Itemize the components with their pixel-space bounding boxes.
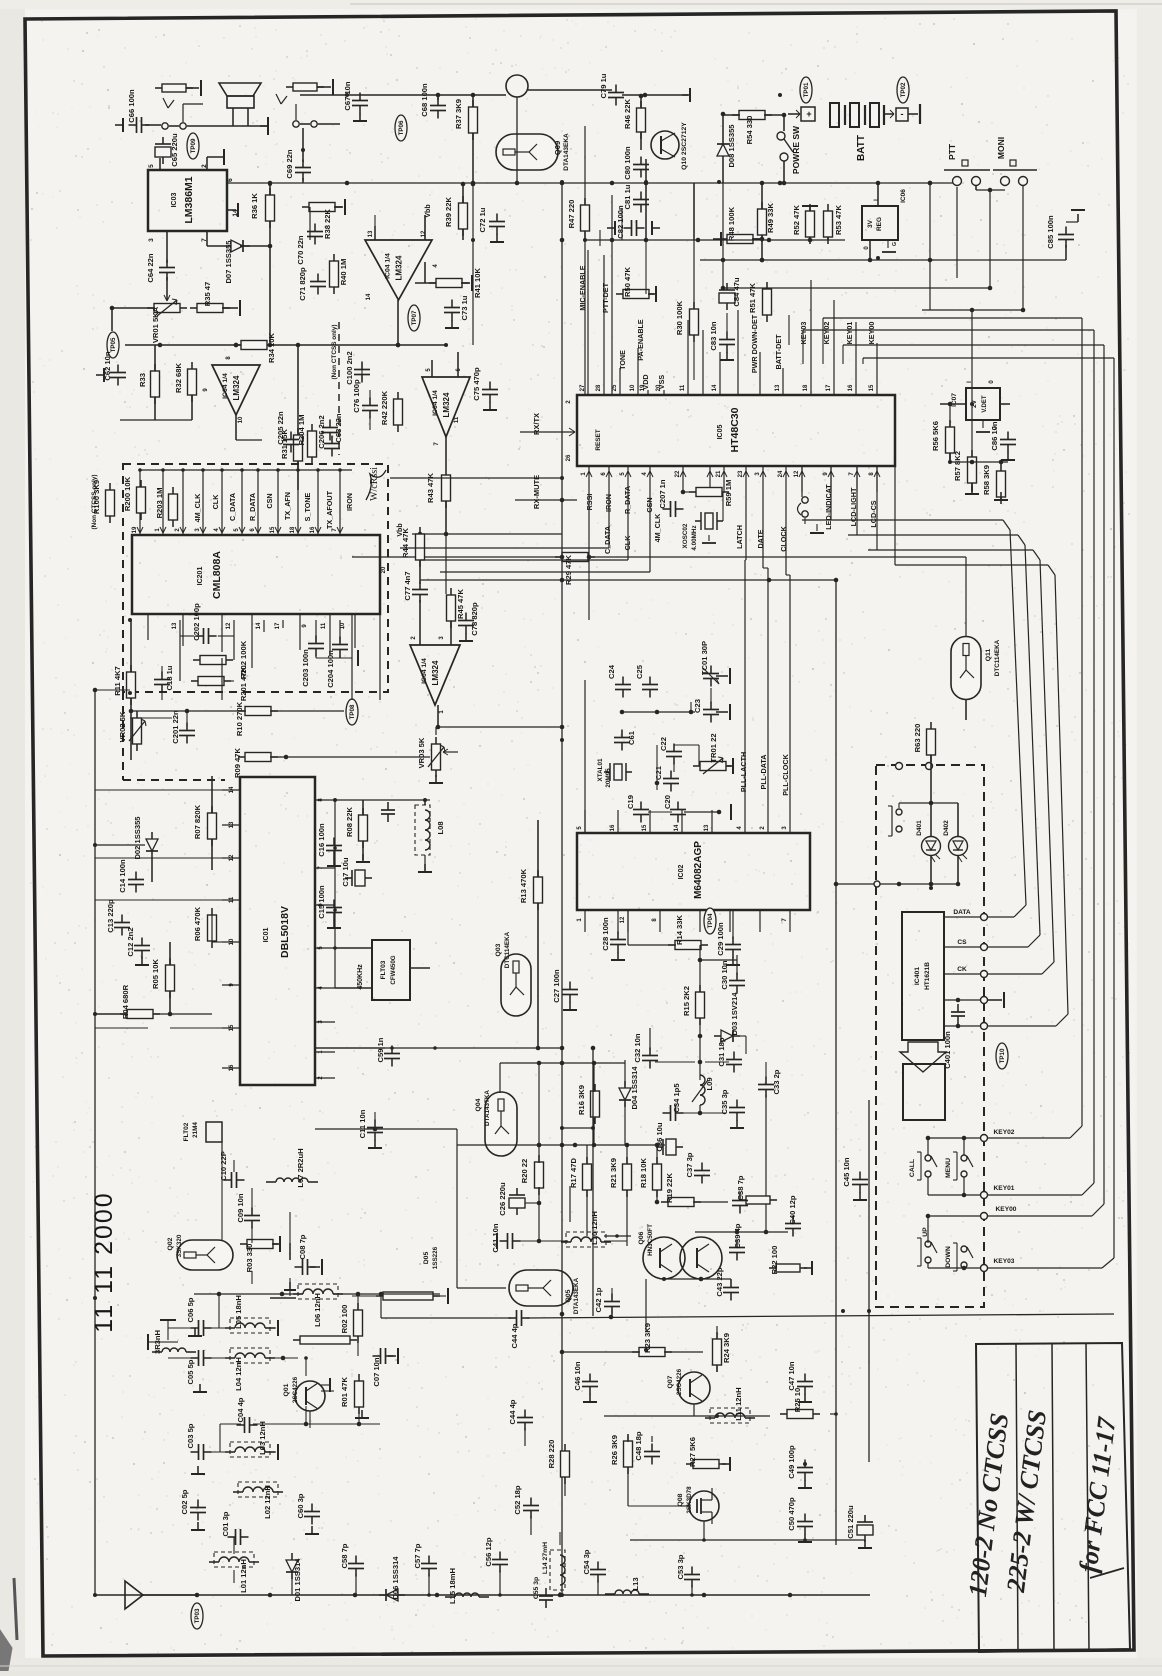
svg-text:C45 10n: C45 10n: [842, 1157, 851, 1186]
svg-text:12: 12: [421, 230, 427, 237]
svg-text:KEY03: KEY03: [994, 1258, 1015, 1265]
svg-text:C16 100n: C16 100n: [317, 823, 326, 857]
svg-text:14: 14: [256, 622, 262, 629]
svg-text:C60 3p: C60 3p: [296, 1493, 305, 1518]
svg-text:450KHz: 450KHz: [357, 964, 364, 990]
svg-text:Vbb: Vbb: [425, 204, 432, 217]
svg-text:C50 470p: C50 470p: [787, 1497, 796, 1531]
svg-text:C205 22n: C205 22n: [276, 411, 285, 445]
svg-text:C44 4p: C44 4p: [510, 1323, 519, 1348]
svg-text:R200 10K: R200 10K: [123, 476, 132, 511]
svg-text:R35 47: R35 47: [203, 282, 212, 307]
svg-text:C_DATA: C_DATA: [603, 526, 612, 554]
svg-text:C18 1u: C18 1u: [165, 665, 174, 690]
svg-text:R33: R33: [138, 373, 147, 387]
svg-text:10: 10: [340, 622, 346, 629]
svg-text:TX_AFN: TX_AFN: [283, 492, 292, 520]
svg-text:DBL5018V: DBL5018V: [279, 906, 291, 958]
svg-text:TP05: TP05: [110, 337, 117, 352]
svg-text:TP03: TP03: [194, 1608, 201, 1623]
svg-text:18: 18: [803, 384, 809, 391]
svg-text:IC02: IC02: [678, 865, 685, 880]
svg-text:L01 12nH: L01 12nH: [239, 1559, 248, 1593]
svg-text:R53 47K: R53 47K: [834, 205, 843, 235]
svg-text:C44 4p: C44 4p: [508, 1399, 517, 1424]
svg-text:BATT: BATT: [856, 135, 867, 161]
svg-text:G: G: [892, 242, 898, 246]
svg-text:MIC-ENABLE: MIC-ENABLE: [578, 265, 587, 310]
svg-text:D02 1SS355: D02 1SS355: [133, 816, 142, 860]
svg-text:C206 2n2: C206 2n2: [317, 415, 326, 448]
svg-text:Q03: Q03: [495, 943, 502, 956]
svg-text:C64 22n: C64 22n: [146, 253, 155, 282]
svg-text:R39 22K: R39 22K: [444, 197, 453, 227]
svg-text:HT48C30: HT48C30: [729, 407, 741, 452]
svg-text:10: 10: [630, 384, 636, 391]
svg-text:15: 15: [642, 824, 648, 831]
svg-text:R50 47K: R50 47K: [623, 267, 632, 297]
svg-text:Q04: Q04: [475, 1098, 482, 1111]
svg-text:R01 47K: R01 47K: [340, 1377, 349, 1407]
svg-text:CS: CS: [957, 939, 967, 946]
svg-text:DATE: DATE: [756, 529, 765, 548]
svg-text:C26 220u: C26 220u: [498, 1182, 507, 1216]
svg-text:C78 820p: C78 820p: [470, 602, 479, 636]
svg-text:C20: C20: [663, 795, 672, 809]
svg-text:LM386M1: LM386M1: [183, 176, 195, 223]
svg-text:10: 10: [238, 416, 244, 423]
svg-text:R20 22: R20 22: [520, 1159, 529, 1184]
svg-text:11: 11: [454, 416, 460, 423]
svg-text:12: 12: [226, 622, 232, 629]
svg-text:R59 1M: R59 1M: [724, 480, 733, 507]
svg-text:C04 4p: C04 4p: [236, 1397, 245, 1422]
svg-text:C54 3p: C54 3p: [582, 1549, 591, 1574]
svg-text:C65 220u: C65 220u: [170, 133, 179, 167]
svg-text:R46 22K: R46 22K: [623, 99, 632, 129]
svg-text:21M4: 21M4: [192, 1122, 199, 1138]
svg-text:D04 1SS314: D04 1SS314: [630, 1066, 639, 1110]
svg-text:TP02: TP02: [900, 82, 907, 97]
svg-text:TP10: TP10: [999, 1048, 1006, 1063]
svg-text:C72 1u: C72 1u: [478, 207, 487, 232]
svg-text:R48 100K: R48 100K: [727, 206, 736, 241]
svg-text:14: 14: [712, 384, 718, 391]
svg-text:C56 12p: C56 12p: [484, 1537, 493, 1566]
svg-text:R36 1K: R36 1K: [250, 193, 259, 219]
svg-text:C39 4p: C39 4p: [733, 1223, 742, 1248]
svg-text:C42 1p: C42 1p: [594, 1287, 603, 1312]
svg-text:6: 6: [227, 178, 234, 182]
svg-text:C46 10n: C46 10n: [573, 1361, 582, 1390]
svg-text:C14 100n: C14 100n: [118, 859, 127, 893]
svg-text:R22 100: R22 100: [770, 1246, 779, 1275]
svg-text:C15 100n: C15 100n: [317, 885, 326, 919]
svg-text:R09 47K: R09 47K: [233, 748, 242, 778]
svg-text:CALL: CALL: [909, 1159, 916, 1177]
svg-text:TR01 22: TR01 22: [709, 733, 718, 762]
svg-text:D06 1SS314: D06 1SS314: [391, 1556, 400, 1600]
svg-text:L15 18mH: L15 18mH: [448, 1568, 457, 1604]
svg-text:L10 12nH: L10 12nH: [590, 1211, 599, 1245]
svg-text:C57 7p: C57 7p: [413, 1543, 422, 1568]
svg-text:C03 5p: C03 5p: [186, 1423, 195, 1448]
svg-text:TP07: TP07: [411, 310, 418, 325]
svg-text:REG: REG: [876, 217, 883, 231]
svg-text:R_DATA: R_DATA: [248, 493, 257, 521]
svg-text:FLT02: FLT02: [183, 1122, 190, 1141]
svg-text:2SK3D78: 2SK3D78: [686, 1486, 693, 1514]
svg-text:C35 3p: C35 3p: [720, 1089, 729, 1114]
svg-text:C69 22n: C69 22n: [285, 149, 294, 178]
svg-text:+: +: [806, 109, 811, 119]
svg-text:R28 220: R28 220: [547, 1440, 556, 1469]
svg-text:4.00MHz: 4.00MHz: [691, 525, 698, 550]
svg-text:C58 7p: C58 7p: [340, 1543, 349, 1568]
svg-text:R40 1M: R40 1M: [339, 259, 348, 286]
svg-text:CLK: CLK: [211, 494, 220, 510]
svg-text:L13: L13: [631, 1577, 640, 1590]
svg-text:C07 10n: C07 10n: [372, 1357, 381, 1386]
svg-text:R30 100K: R30 100K: [675, 300, 684, 335]
svg-text:Q11: Q11: [985, 649, 992, 662]
svg-text:PLL-LACTH: PLL-LACTH: [739, 752, 748, 792]
svg-text:XTAL01: XTAL01: [597, 758, 604, 781]
svg-text:11 11 2000: 11 11 2000: [90, 1191, 118, 1332]
svg-text:16: 16: [610, 824, 616, 831]
svg-text:L09: L09: [705, 1077, 714, 1090]
svg-text:CFW450G: CFW450G: [390, 955, 397, 984]
svg-text:R15 2K2: R15 2K2: [682, 986, 691, 1016]
svg-text:5: 5: [148, 164, 155, 168]
svg-text:Vbb: Vbb: [397, 523, 404, 536]
svg-text:4M_CLK: 4M_CLK: [653, 513, 662, 543]
svg-text:R56 5K6: R56 5K6: [931, 421, 940, 451]
svg-text:TP08: TP08: [349, 704, 356, 719]
svg-text:D08 1SS355: D08 1SS355: [727, 124, 736, 168]
svg-text:CLOCK: CLOCK: [779, 525, 788, 551]
svg-text:C38 7p: C38 7p: [736, 1175, 745, 1200]
svg-text:VR02 5K: VR02 5K: [118, 711, 127, 742]
svg-text:MENU: MENU: [945, 1158, 952, 1178]
svg-text:20M95: 20M95: [605, 768, 612, 788]
svg-text:28: 28: [596, 384, 602, 391]
svg-text:LATCH: LATCH: [735, 525, 744, 549]
svg-text:C52 18p: C52 18p: [513, 1485, 522, 1514]
svg-text:C23: C23: [693, 699, 702, 713]
svg-text:C201 22n: C201 22n: [171, 710, 180, 744]
svg-text:Q01: Q01: [283, 1383, 290, 1396]
svg-text:16: 16: [848, 384, 854, 391]
svg-text:R34 10K: R34 10K: [267, 333, 276, 363]
svg-text:C73 1u: C73 1u: [460, 295, 469, 320]
svg-text:C63 22n: C63 22n: [334, 413, 343, 442]
svg-text:C86 10n: C86 10n: [990, 421, 999, 450]
svg-text:Q07: Q07: [667, 1375, 674, 1388]
svg-text:TP01: TP01: [803, 82, 810, 97]
svg-text:RESET: RESET: [595, 429, 602, 450]
svg-text:R45 47K: R45 47K: [456, 589, 465, 619]
svg-text:C11 10n: C11 10n: [358, 1109, 367, 1138]
svg-text:PTT: PTT: [947, 143, 957, 160]
svg-text:25: 25: [612, 384, 618, 391]
svg-text:R21 3K9: R21 3K9: [609, 1158, 618, 1188]
svg-text:KEY01: KEY01: [845, 322, 854, 345]
svg-text:IRON: IRON: [345, 493, 354, 511]
svg-text:KEY00: KEY00: [867, 322, 876, 345]
svg-text:12: 12: [620, 916, 626, 923]
svg-text:Q06: Q06: [638, 1231, 645, 1244]
svg-text:R10 270K: R10 270K: [235, 701, 244, 736]
svg-text:KEY01: KEY01: [994, 1185, 1015, 1192]
svg-text:14: 14: [366, 293, 372, 300]
svg-text:C17 10u: C17 10u: [341, 857, 350, 886]
svg-text:D401: D401: [916, 820, 923, 836]
svg-text:R02 100: R02 100: [340, 1305, 349, 1334]
svg-text:RX-MUTE: RX-MUTE: [532, 475, 541, 509]
svg-text:R08 22K: R08 22K: [345, 807, 354, 837]
svg-text:CSN: CSN: [265, 493, 274, 508]
svg-text:C49 100p: C49 100p: [787, 1445, 796, 1479]
svg-text:C84 47u: C84 47u: [732, 277, 741, 306]
svg-text:C83 10n: C83 10n: [709, 321, 718, 350]
svg-text:PLL-DATA: PLL-DATA: [759, 755, 768, 790]
svg-text:R52 47K: R52 47K: [792, 205, 801, 235]
svg-text:2SC4226: 2SC4226: [676, 1368, 683, 1395]
svg-text:HN3C50FT: HN3C50FT: [647, 1224, 654, 1256]
svg-text:4M_CLK: 4M_CLK: [193, 493, 202, 523]
svg-text:L06 12nH: L06 12nH: [313, 1293, 322, 1327]
svg-text:C207 1n: C207 1n: [658, 479, 667, 508]
svg-text:C71 820p: C71 820p: [298, 267, 307, 301]
svg-text:Q10 2SC2712Y: Q10 2SC2712Y: [681, 122, 688, 170]
svg-text:PWR DOWN-DET: PWR DOWN-DET: [750, 314, 759, 373]
svg-text:DATA: DATA: [953, 909, 971, 916]
svg-text:Q05: Q05: [565, 1289, 572, 1302]
svg-text:VR03 5K: VR03 5K: [417, 737, 426, 768]
svg-text:C82 100n: C82 100n: [616, 205, 625, 239]
svg-text:R11 4K7: R11 4K7: [113, 666, 122, 696]
svg-text:R27 5K6: R27 5K6: [688, 1437, 697, 1467]
svg-text:C80 100n: C80 100n: [623, 146, 632, 180]
svg-text:R07 820K: R07 820K: [193, 804, 202, 839]
svg-text:2SC4226: 2SC4226: [292, 1376, 299, 1403]
svg-text:Q02: Q02: [167, 1237, 174, 1250]
svg-text:FLT03: FLT03: [380, 960, 387, 979]
svg-text:C66 100n: C66 100n: [127, 89, 136, 123]
svg-text:C12 2n2: C12 2n2: [126, 927, 135, 956]
svg-text:C59 1n: C59 1n: [376, 1037, 385, 1062]
svg-text:C47 10n: C47 10n: [787, 1361, 796, 1390]
svg-text:DTC114EKA: DTC114EKA: [994, 639, 1001, 676]
svg-text:LM324: LM324: [442, 392, 451, 417]
svg-text:R03 330: R03 330: [245, 1244, 254, 1273]
svg-text:17: 17: [275, 622, 281, 629]
svg-text:R24 3K9: R24 3K9: [722, 1333, 731, 1363]
svg-text:C_DATA: C_DATA: [228, 493, 237, 521]
svg-text:VR01 5KA: VR01 5KA: [151, 306, 160, 343]
svg-text:CML808A: CML808A: [211, 551, 223, 599]
svg-text:C27 100n: C27 100n: [552, 969, 561, 1003]
svg-text:R42 220K: R42 220K: [380, 390, 389, 425]
svg-text:IC03: IC03: [171, 193, 178, 208]
svg-text:C22: C22: [659, 737, 668, 751]
svg-text:IC401: IC401: [914, 967, 921, 985]
svg-text:DTC114EKA: DTC114EKA: [504, 931, 511, 968]
svg-text:15: 15: [869, 384, 875, 391]
svg-text:VSS: VSS: [657, 375, 666, 390]
svg-text:BATT-DET: BATT-DET: [774, 334, 783, 370]
svg-text:L03 12nH: L03 12nH: [258, 1421, 267, 1455]
svg-text:Q09: Q09: [553, 141, 562, 155]
svg-text:C61: C61: [627, 730, 636, 745]
svg-text:S_TONE: S_TONE: [303, 492, 312, 521]
svg-text:LED-INDICAT: LED-INDICAT: [824, 484, 833, 530]
svg-text:(Non CTCSS only): (Non CTCSS only): [91, 474, 98, 529]
svg-text:26: 26: [566, 454, 572, 461]
svg-text:C28 100n: C28 100n: [601, 917, 610, 951]
svg-text:TP06: TP06: [398, 120, 405, 135]
svg-text:R32 68K: R32 68K: [174, 363, 183, 393]
svg-text:C79 1u: C79 1u: [599, 73, 608, 98]
svg-text:LM324: LM324: [395, 255, 404, 280]
svg-text:KEY02: KEY02: [994, 1129, 1015, 1136]
svg-text:R49 33K: R49 33K: [766, 203, 775, 233]
svg-text:C203 100n: C203 100n: [301, 649, 310, 687]
svg-text:C21: C21: [654, 765, 663, 780]
svg-text:R201 47K.: R201 47K.: [239, 665, 248, 701]
svg-text:3V: 3V: [867, 219, 874, 228]
svg-text:TP04: TP04: [707, 913, 714, 928]
svg-text:1SS226: 1SS226: [432, 1246, 439, 1269]
svg-text:D03 1SV214: D03 1SV214: [730, 992, 739, 1036]
svg-text:C09 10n: C09 10n: [236, 1193, 245, 1222]
svg-text:PA-ENABLE: PA-ENABLE: [636, 319, 645, 361]
svg-text:R41 10K: R41 10K: [473, 268, 482, 298]
svg-text:POWRE SW: POWRE SW: [791, 125, 801, 174]
svg-text:V.DET: V.DET: [982, 395, 988, 412]
svg-text:KEY00: KEY00: [996, 1206, 1017, 1213]
svg-text:IC201: IC201: [197, 567, 204, 586]
svg-text:R51 47K: R51 47K: [748, 283, 757, 313]
svg-text:C29 100n: C29 100n: [716, 922, 725, 956]
svg-text:C75 470p: C75 470p: [472, 367, 481, 401]
svg-text:R06 470K: R06 470K: [193, 906, 202, 941]
svg-text:R63 220: R63 220: [913, 724, 922, 753]
svg-text:C68 100n: C68 100n: [420, 83, 429, 117]
svg-text:C53 3p: C53 3p: [676, 1554, 685, 1579]
svg-text:C41 10n: C41 10n: [491, 1223, 500, 1252]
svg-text:L07 2R2uH: L07 2R2uH: [296, 1148, 305, 1187]
svg-text:R26 3K9: R26 3K9: [610, 1435, 619, 1465]
svg-text:3SK320: 3SK320: [176, 1234, 183, 1257]
svg-text:VDD: VDD: [641, 374, 650, 389]
svg-text:R204 1M: R204 1M: [297, 415, 306, 446]
svg-text:C13 220p: C13 220p: [106, 899, 115, 933]
svg-text:13: 13: [775, 384, 781, 391]
svg-text:Q08: Q08: [677, 1493, 684, 1506]
svg-text:20: 20: [381, 566, 387, 573]
svg-text:11: 11: [321, 622, 327, 629]
svg-text:IC01: IC01: [263, 928, 270, 943]
svg-text:CK: CK: [957, 966, 967, 973]
svg-text:13: 13: [704, 824, 710, 831]
svg-text:DOWN: DOWN: [945, 1246, 952, 1268]
svg-text:C100 2n2: C100 2n2: [345, 351, 354, 384]
svg-text:LM324: LM324: [431, 660, 440, 685]
svg-text:LM324: LM324: [232, 375, 241, 400]
svg-text:D05: D05: [423, 1252, 430, 1265]
svg-text:C33 2p: C33 2p: [772, 1069, 781, 1094]
svg-text:C77 4n7: C77 4n7: [403, 571, 412, 600]
svg-text:R17 47D: R17 47D: [569, 1158, 578, 1188]
svg-text:IC04 1/4: IC04 1/4: [421, 658, 428, 684]
svg-text:PTT-DET: PTT-DET: [601, 282, 610, 313]
svg-text:C34 1p5: C34 1p5: [672, 1083, 681, 1113]
svg-text:R203 1M: R203 1M: [155, 488, 164, 519]
svg-text:17: 17: [826, 384, 832, 391]
svg-text:R18 10K: R18 10K: [639, 1158, 648, 1188]
svg-text:C10 22P: C10 22P: [219, 1151, 228, 1181]
svg-text:13: 13: [368, 230, 374, 237]
svg-text:C32 10n: C32 10n: [633, 1033, 642, 1062]
svg-text:IC04 1/4: IC04 1/4: [432, 390, 439, 416]
svg-text:R43 47K: R43 47K: [426, 473, 435, 503]
svg-text:C08 7p: C08 7p: [298, 1234, 307, 1259]
svg-text:L05 18nH: L05 18nH: [234, 1295, 243, 1329]
svg-text:D402: D402: [943, 820, 950, 836]
svg-text:TX_AFOUT: TX_AFOUT: [325, 490, 334, 529]
svg-text:C51 220u: C51 220u: [846, 1505, 855, 1539]
svg-text:TP09: TP09: [190, 138, 197, 153]
svg-text:R13 470K: R13 470K: [519, 868, 528, 903]
svg-text:TONE: TONE: [618, 350, 627, 370]
svg-text:-: -: [901, 109, 904, 119]
svg-text:R16 3K9: R16 3K9: [577, 1085, 586, 1115]
svg-text:MONI: MONI: [996, 137, 1006, 159]
svg-text:C85 100n: C85 100n: [1046, 215, 1055, 249]
svg-text:D01 1SS314: D01 1SS314: [293, 1558, 302, 1602]
svg-text:C01 3p: C01 3p: [221, 1511, 230, 1536]
svg-text:C30 10n: C30 10n: [720, 960, 729, 989]
svg-text:27: 27: [580, 384, 586, 391]
svg-text:R57 8K2: R57 8K2: [953, 451, 962, 481]
svg-text:IC06: IC06: [900, 189, 907, 203]
svg-text:PLL-CLOCK: PLL-CLOCK: [781, 753, 790, 795]
svg-text:14: 14: [674, 824, 680, 831]
svg-text:13: 13: [172, 622, 178, 629]
svg-text:R14 33K: R14 33K: [675, 915, 684, 945]
svg-text:R23 3K9: R23 3K9: [643, 1323, 652, 1353]
svg-text:HT1621B: HT1621B: [924, 962, 931, 990]
svg-text:11: 11: [680, 384, 686, 391]
svg-text:L08: L08: [436, 821, 445, 834]
svg-text:R05 10K: R05 10K: [151, 959, 160, 989]
svg-text:(Non CTCSS only): (Non CTCSS only): [331, 324, 338, 379]
svg-text:C48 18p: C48 18p: [634, 1431, 643, 1460]
svg-text:C70 22n: C70 22n: [296, 235, 305, 264]
svg-text:M64082AGP: M64082AGP: [693, 841, 704, 899]
svg-text:C37 3p: C37 3p: [685, 1152, 694, 1177]
svg-text:DTA143TKA: DTA143TKA: [484, 1090, 491, 1126]
svg-text:C40 12p: C40 12p: [788, 1195, 797, 1224]
svg-text:IC04 1/4: IC04 1/4: [222, 373, 229, 399]
svg-text:C25: C25: [635, 664, 644, 679]
svg-text:L02 12nH: L02 12nH: [263, 1485, 272, 1519]
svg-text:C202 100p: C202 100p: [192, 603, 201, 641]
svg-text:C19: C19: [626, 795, 635, 809]
svg-text:DTA143EKA: DTA143EKA: [573, 1277, 580, 1314]
